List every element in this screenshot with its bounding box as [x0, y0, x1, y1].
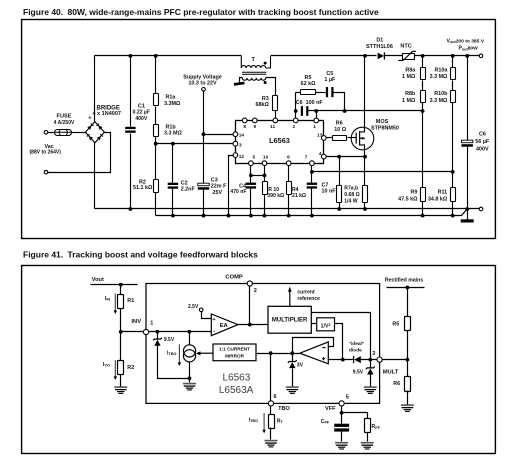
svg-text:R6: R6 — [336, 121, 343, 127]
wire supply to pin 14 — [204, 134, 234, 136]
wire C5 to INV net — [334, 93, 345, 111]
junction R10a top — [451, 54, 455, 58]
capacitor C6 100nF compensation — [301, 106, 309, 116]
wire 1/V2 output down — [335, 324, 343, 360]
resistor R4 21k — [288, 164, 290, 182]
resistor R7a 0.68 — [339, 157, 341, 186]
wire INV feedback net — [308, 110, 423, 112]
svg-text:3.3MΩ: 3.3MΩ — [164, 101, 181, 107]
wire pin 4 current sense — [324, 156, 365, 158]
resistor RT — [269, 415, 275, 429]
figure 40 caption — [23, 7, 63, 17]
wire R10b down to PFC OK node — [452, 103, 454, 188]
svg-text:2.2nF: 2.2nF — [181, 187, 196, 193]
svg-text:0.68 Ω: 0.68 Ω — [344, 192, 359, 198]
svg-text:3.3 MΩ: 3.3 MΩ — [430, 98, 448, 104]
fuse FUSE 4A/250V — [55, 130, 72, 136]
junction MOS source R7b — [363, 155, 367, 159]
wire pin7 to R10b R11 node — [312, 171, 453, 173]
label pin 6 number — [274, 394, 277, 400]
label C5 1uF — [326, 71, 333, 77]
svg-text:Vout: Vout — [92, 277, 104, 283]
wire zener to mirror foot — [158, 346, 190, 379]
junction C4 rail2 — [249, 214, 253, 218]
terminal Vout negative — [479, 207, 483, 211]
svg-text:13: 13 — [317, 133, 323, 139]
svg-text:C2: C2 — [181, 180, 188, 186]
label R10a 3.3M — [435, 67, 449, 73]
svg-text:RT: RT — [277, 418, 284, 424]
reference 2.5V terminal — [199, 308, 203, 312]
MOS source wire — [364, 145, 366, 157]
svg-text:STTH1L06: STTH1L06 — [366, 44, 393, 50]
label CFF — [321, 419, 330, 425]
wire INV to current source — [189, 332, 191, 345]
svg-text:9.5V: 9.5V — [353, 369, 364, 375]
svg-text:7: 7 — [305, 155, 308, 161]
label Itbo external — [249, 417, 258, 423]
junction rectified mains — [406, 286, 410, 290]
wire Vout rail — [91, 284, 138, 286]
label pin 5 number — [346, 395, 349, 401]
label Iin — [105, 296, 111, 302]
pin number labels — [239, 124, 323, 161]
svg-text:6: 6 — [274, 394, 277, 400]
label R1 — [127, 298, 134, 304]
wire R1 to INV node — [120, 309, 122, 361]
svg-text:400V: 400V — [476, 146, 489, 152]
label Vout 200 to 385V Pout 80W — [447, 38, 485, 44]
pin 6 — [286, 161, 291, 166]
ground under CFF — [335, 443, 348, 449]
label C1 0.22uF 400V — [138, 104, 145, 110]
wire R8a to R8b — [422, 81, 424, 91]
capacitor C2 2.2nF — [172, 144, 174, 183]
wire top rail right section — [271, 55, 377, 57]
wire bridge top to rail — [94, 56, 96, 122]
svg-text:IIN: IIN — [105, 296, 111, 302]
ground under mult zener — [364, 387, 377, 393]
pin 5 VFF circle — [339, 401, 344, 406]
svg-text:R6: R6 — [393, 381, 400, 387]
wire RT to ground — [270, 428, 272, 440]
junction C7 rail2 — [310, 214, 314, 218]
label R2 51.1k — [139, 180, 146, 186]
figure 40 border box — [22, 20, 496, 239]
label Itbo internal — [167, 350, 176, 356]
svg-text:R8b: R8b — [405, 91, 416, 97]
wire R5 to C5 — [316, 92, 327, 94]
svg-text:Tracking boost and voltage fee: Tracking boost and voltage feedforward b… — [68, 250, 259, 260]
zener 9.5V INV clamp — [157, 332, 159, 340]
svg-text:R10a: R10a — [435, 67, 449, 73]
svg-text:10.3 to 22V: 10.3 to 22V — [188, 80, 217, 86]
capacitor C5 1uF — [326, 87, 334, 97]
pin 11 — [273, 118, 278, 123]
wire buffer plus input — [329, 359, 354, 361]
svg-text:-: - — [213, 328, 215, 335]
svg-text:400V: 400V — [135, 116, 147, 122]
svg-text:5: 5 — [346, 395, 349, 401]
svg-text:10: 10 — [263, 155, 269, 161]
junction mirror foot — [188, 376, 192, 380]
svg-text:ITBO: ITBO — [167, 350, 176, 356]
svg-text:9.5V: 9.5V — [164, 337, 175, 343]
wire bridge bottom to ground rail — [94, 143, 96, 209]
wire EA output — [239, 324, 269, 326]
label R6 10ohm — [336, 121, 343, 127]
label current reference — [297, 289, 315, 295]
svg-text:L6563A: L6563A — [219, 385, 254, 396]
wire R6 to MOS gate — [348, 137, 357, 139]
ground under R2 — [114, 387, 127, 393]
svg-text:MULTIPLIER: MULTIPLIER — [272, 318, 308, 324]
arrow Ivo current — [114, 360, 118, 380]
svg-text:COMP: COMP — [225, 275, 243, 281]
svg-text:R11: R11 — [438, 189, 448, 195]
label FUSE 4 A/250V — [57, 114, 72, 120]
resistor R2 — [118, 361, 124, 375]
wire pin5 pin10 tie — [251, 175, 265, 177]
label C6 100nF — [296, 100, 324, 106]
resistor R8b 1M — [421, 91, 426, 103]
svg-text:EA: EA — [220, 323, 229, 329]
label R5 62k — [305, 75, 312, 81]
zener 3V clamp — [292, 354, 294, 362]
label L6563 — [269, 136, 290, 145]
svg-text:8: 8 — [243, 124, 246, 130]
ground under current source — [183, 384, 196, 390]
svg-text:12: 12 — [239, 154, 245, 160]
svg-text:3: 3 — [239, 142, 242, 148]
label R6 divider — [393, 381, 400, 387]
pin 12 — [233, 153, 238, 158]
resistor R11 34.8k — [451, 188, 456, 202]
svg-text:C7: C7 — [322, 182, 329, 188]
wire fuse input — [48, 132, 55, 134]
wire diode to pin 3 — [361, 359, 378, 361]
svg-text:C6 100 nF: C6 100 nF — [296, 100, 324, 106]
junction R7b rail1 — [363, 207, 367, 211]
bridge rectifier BRIDGE 4 x 1N4007 — [85, 122, 104, 143]
svg-text:C3: C3 — [211, 177, 218, 183]
pin 4 — [321, 154, 326, 159]
resistor R1b 3.3M — [154, 125, 159, 137]
label MOS STP8NM50 — [376, 119, 389, 125]
svg-text:2: 2 — [254, 288, 257, 294]
svg-text:56 µF: 56 µF — [475, 139, 490, 145]
capacitor C6 56uF 400V output — [467, 56, 469, 141]
svg-text:“ideal”: “ideal” — [349, 341, 365, 347]
ground rail1 bottom — [95, 208, 480, 210]
junction R9 rail2 — [421, 214, 425, 218]
junction R11 rail2 — [451, 214, 455, 218]
wire rectified mains rail — [387, 287, 425, 289]
pin 6 TBO circle — [268, 401, 273, 406]
svg-text:reference: reference — [297, 296, 320, 302]
junction mult divider tap — [406, 358, 410, 362]
label MULT — [383, 369, 399, 375]
svg-text:R1a: R1a — [166, 95, 177, 101]
resistor R3 68k — [273, 96, 278, 111]
pin 8 — [242, 118, 247, 123]
wire pin 13 to R6 — [324, 137, 333, 139]
capacitor C3 22mF 25V — [198, 183, 209, 190]
svg-text:3V: 3V — [297, 363, 304, 369]
ground under R6 divider — [401, 405, 414, 411]
svg-text:68kΩ: 68kΩ — [255, 102, 269, 108]
wire R2 to rail2 — [155, 193, 157, 216]
label Vac (88V to 264V) — [45, 144, 54, 150]
wire buffer output node — [257, 353, 300, 355]
svg-text:MULT: MULT — [383, 369, 399, 375]
label R5 divider — [392, 321, 399, 327]
wire RFF to ground — [367, 433, 369, 442]
label Ivo — [103, 362, 110, 368]
op amp ideal diode buffer — [300, 342, 329, 364]
svg-text:diode: diode — [349, 347, 362, 353]
arrow Itbo internal — [178, 344, 182, 366]
svg-text:L6563: L6563 — [222, 373, 250, 384]
pin 13 — [321, 136, 326, 141]
wire feedback node down to R9 — [422, 111, 424, 188]
pin 10 — [262, 161, 267, 166]
svg-text:ITBO: ITBO — [249, 417, 258, 423]
capacitor CFF — [334, 424, 349, 432]
wire 2.5V to EA plus — [202, 312, 212, 319]
resistor R10a 3.3M — [452, 56, 454, 68]
label + bridge positive — [88, 115, 92, 121]
arrow current reference — [288, 287, 292, 307]
junction 9.5V mult clamp — [368, 358, 372, 362]
svg-text:1 µF: 1 µF — [324, 77, 336, 83]
label Rectified mains — [385, 277, 423, 283]
svg-text:25V: 25V — [213, 190, 223, 196]
pin7 vertical — [311, 164, 313, 183]
MOS drain wire — [364, 56, 366, 132]
junction R4 rail2 — [287, 214, 291, 218]
pin 1 — [314, 118, 319, 123]
pin 1 INV circle — [143, 329, 148, 334]
wire mains to R5 — [407, 288, 409, 317]
label T — [252, 57, 256, 63]
pin 9 — [252, 118, 257, 123]
label 9.5V mult — [353, 369, 364, 375]
svg-text:10 nF: 10 nF — [322, 189, 337, 195]
wire INV internal — [147, 331, 212, 333]
transistor Q1 MOS STP8NM50 — [351, 127, 374, 150]
wire pin5 to VFF node — [341, 407, 343, 424]
junction INV divider node — [119, 330, 123, 334]
phase dot primary — [264, 62, 267, 65]
wire top rail left section — [95, 55, 242, 57]
label RT — [277, 418, 284, 424]
label VFF — [325, 406, 336, 412]
multiplier block — [268, 306, 311, 333]
label pin 1 number — [150, 321, 153, 327]
svg-text:MIRROR: MIRROR — [225, 353, 245, 358]
terminal Vout positive — [479, 54, 483, 58]
label pin 2 number — [254, 288, 257, 294]
svg-text:1: 1 — [313, 124, 316, 130]
label R9 47.5k — [410, 189, 417, 195]
wire R5 left — [296, 92, 301, 94]
wire pin6 vertical — [270, 354, 272, 404]
terminal Vac line 1 — [44, 131, 48, 135]
wire aux winding left to ground stub — [240, 78, 243, 83]
junction C3 rail2 — [202, 214, 206, 218]
wire INV node to pin 1 — [121, 331, 147, 333]
label R1a 3.3M — [166, 95, 177, 101]
svg-text:4 x 1N4007: 4 x 1N4007 — [93, 111, 121, 117]
svg-text:FUSE: FUSE — [57, 114, 72, 120]
label BRIDGE 4 x 1N4007 — [97, 105, 120, 111]
junction C6 ground rail1 — [465, 207, 469, 211]
resistor R7b 0.68 — [364, 157, 366, 186]
svg-text:Pout80W: Pout80W — [459, 46, 479, 52]
wire multiplier to 1/V2 — [312, 323, 317, 325]
terminal Vac line 2 — [44, 170, 48, 174]
label INV — [131, 319, 141, 325]
pin1 vertical — [316, 111, 318, 121]
svg-text:1 MΩ: 1 MΩ — [402, 98, 416, 104]
svg-text:22m F: 22m F — [211, 184, 227, 190]
junction COMP EA output — [248, 323, 252, 327]
svg-text:10 Ω: 10 Ω — [334, 127, 346, 133]
capacitor C4 470nF — [246, 183, 256, 189]
junction MOS drain rail — [363, 54, 367, 58]
junction supply to VCC pin 14 — [202, 132, 206, 136]
label 2.5V — [188, 304, 199, 310]
svg-text:NTC: NTC — [400, 44, 411, 50]
wire R1a to R1b — [155, 107, 157, 125]
resistor R9 47.5k — [421, 188, 426, 202]
wire R1b to node — [155, 137, 157, 144]
label ideal diode — [349, 341, 365, 347]
wire pin6 to RT — [270, 407, 272, 415]
svg-text:14: 14 — [239, 133, 245, 139]
resistor R10b 3.3M — [451, 91, 456, 103]
figure 41 border box — [22, 266, 496, 454]
terminal supply voltage — [202, 88, 206, 92]
wire R6 to ground — [407, 391, 409, 405]
label R4 21k — [292, 187, 299, 193]
junction R8a top — [421, 54, 425, 58]
junction zener 9.5V INV — [156, 330, 160, 334]
svg-text:Vout200 to 385 V: Vout200 to 385 V — [447, 38, 485, 44]
thermistor NTC — [398, 51, 416, 60]
wire aux winding right to R3 — [266, 78, 276, 96]
pin 14 — [233, 132, 238, 137]
svg-text:4: 4 — [319, 151, 322, 157]
wire VFF node to RFF — [342, 413, 368, 419]
svg-text:CFF: CFF — [321, 419, 330, 425]
label R8a 1M — [405, 67, 416, 73]
junction pin7 PFC OK net — [310, 170, 314, 174]
wire divider node to pin 3 — [156, 143, 234, 145]
wire R5 to R6 — [407, 331, 409, 377]
label C3 22mF 25V — [211, 177, 218, 183]
svg-text:1:1 CURRENT: 1:1 CURRENT — [219, 347, 250, 352]
resistor R2 51.1k — [155, 144, 157, 180]
wire R9 to rail2 — [422, 202, 424, 216]
svg-text:47.5 kΩ: 47.5 kΩ — [398, 196, 418, 202]
junction current mirror INV — [188, 330, 192, 334]
junction buffer output 3V — [290, 351, 294, 355]
node R1b R2 junction — [154, 142, 158, 146]
wire pin2 vertical COMP — [249, 284, 251, 325]
svg-text:3.3 MΩ: 3.3 MΩ — [430, 74, 448, 80]
label 3V — [297, 363, 304, 369]
phase dot secondary — [264, 81, 267, 84]
svg-text:C5: C5 — [326, 71, 333, 77]
pin 3 — [233, 141, 238, 146]
wire mirror to current source with arrow — [196, 351, 213, 355]
junction pin1 vertical — [314, 109, 318, 113]
svg-text:D1: D1 — [376, 37, 383, 43]
junction R7a top — [337, 155, 341, 159]
svg-text:Figure 41.: Figure 41. — [23, 250, 63, 260]
svg-text:Supply Voltage: Supply Voltage — [183, 74, 222, 80]
pin 5 — [249, 161, 254, 166]
junction pin6 TBO net — [269, 351, 273, 355]
label R10 390k — [268, 187, 279, 193]
wire pin3 to divider — [383, 359, 408, 361]
resistor R5 mult divider — [405, 317, 411, 331]
resistor RFF — [365, 419, 371, 433]
wire R11 to rail2 — [452, 202, 454, 216]
earth ground output — [461, 219, 474, 222]
wire current source to foot — [189, 362, 191, 383]
figure 41 caption — [23, 250, 63, 260]
junction pin10 tie — [263, 174, 267, 178]
label R8b 1M — [405, 91, 416, 97]
current mirror block 1:1 — [213, 344, 256, 361]
svg-text:R9: R9 — [410, 189, 417, 195]
svg-text:R2: R2 — [127, 365, 134, 371]
label R3 68k — [262, 96, 269, 102]
wire 3V zener to ground — [292, 369, 294, 387]
label Supply Voltage 10.3 to 22V — [183, 74, 222, 80]
junction feedback node R8b R9 INV — [421, 109, 425, 113]
resistor R1 — [120, 285, 122, 295]
capacitor C7 10nF — [307, 183, 317, 189]
ground under RT — [265, 441, 278, 447]
op amp EA error amplifier — [211, 314, 238, 336]
block 1/V2 feedforward — [317, 318, 335, 331]
wire R7b to rail1 — [364, 203, 366, 209]
svg-text:R10b: R10b — [434, 91, 448, 97]
junction R1a top — [154, 54, 158, 58]
ground under 3V zener — [286, 387, 299, 393]
svg-text:STP8NM50: STP8NM50 — [371, 126, 399, 132]
pin 3 MULT circle — [377, 357, 382, 362]
junction VFF node — [340, 411, 344, 415]
diode D1 STTH1L06 — [378, 52, 385, 59]
wire mult zener to ground — [370, 375, 372, 387]
junction C1 top — [129, 54, 133, 58]
svg-text:6: 6 — [287, 155, 290, 161]
label D1 STTH1L06 — [376, 37, 383, 43]
transformer T boost inductor — [241, 56, 270, 80]
svg-text:R1: R1 — [127, 298, 134, 304]
junction C5 INV net — [343, 109, 347, 113]
svg-text:3.3 MΩ: 3.3 MΩ — [164, 130, 182, 136]
label NTC — [400, 44, 411, 50]
wire line2 to bridge right vertex — [48, 133, 111, 173]
label L6563 L6563A — [222, 373, 250, 384]
svg-text:Rectified mains: Rectified mains — [385, 277, 423, 283]
